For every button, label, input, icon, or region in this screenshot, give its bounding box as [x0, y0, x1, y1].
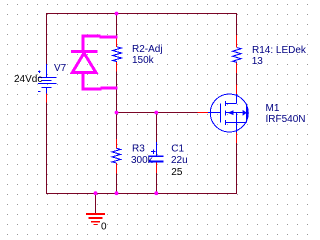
mosfet M1 body arrow [228, 110, 234, 115]
svg-text:24Vdc: 24Vdc [14, 74, 42, 85]
svg-text:M1: M1 [266, 103, 280, 114]
junction mid-left [115, 111, 119, 115]
svg-text:13: 13 [252, 56, 264, 67]
wire: right rail below M1 source [236, 143, 238, 194]
wire: right rail above R14 [236, 13, 238, 35]
svg-text:0: 0 [101, 222, 107, 233]
resistor R2 [113, 47, 122, 62]
diode cathode bar [71, 50, 97, 53]
diode triangle [72, 53, 95, 72]
junction ground [94, 191, 98, 195]
junction bottom-C1 [154, 191, 158, 195]
wire: ground stem [95, 193, 97, 213]
svg-text:R2-Adj: R2-Adj [132, 44, 163, 55]
wire: right rail R14 to M1 drain [236, 73, 238, 84]
wire: top rail [46, 13, 237, 15]
svg-text:IRF540N: IRF540N [266, 114, 306, 125]
svg-text:R3: R3 [132, 144, 145, 155]
capacitor C1 pin bottom [156, 162, 158, 173]
wire: gate rail red pin [198, 112, 209, 114]
junction bottom-R3 [115, 191, 119, 195]
wire: mid vertical R2 to mid rail to R3 [116, 72, 118, 140]
diode lead top [81, 35, 84, 51]
resistor R3 pins [116, 139, 118, 148]
wire: mid vertical above R2 [116, 13, 118, 36]
svg-text:V7: V7 [54, 63, 67, 74]
junction top [115, 12, 119, 16]
diode lead bottom [81, 73, 84, 90]
wire: C1 vertical lower [156, 173, 158, 194]
svg-text:R14: LEDek: R14: LEDek [252, 45, 307, 56]
resistor R14 pins [236, 35, 238, 47]
diode wire bottom [82, 88, 102, 91]
junction mid-C1 [154, 111, 158, 115]
wire: left rail upper [46, 13, 48, 67]
battery V7 [38, 64, 57, 94]
svg-text:25: 25 [171, 167, 183, 178]
svg-text:150k: 150k [132, 55, 155, 66]
mosfet M1 body diode triangle [243, 110, 247, 116]
wire: mid vertical below R3 [116, 173, 118, 194]
resistor R3 [112, 148, 121, 163]
mosfet M1 drain pin [236, 84, 238, 94]
capacitor C1 [149, 142, 163, 162]
wire: C1 vertical upper [156, 113, 158, 142]
wire: middle rail [117, 112, 198, 114]
svg-text:22u: 22u [171, 155, 188, 166]
svg-text:C1: C1 [171, 144, 184, 155]
mosfet M1 source pin [236, 133, 238, 144]
mosfet M1 [210, 94, 248, 132]
battery V7 pin bottom [46, 94, 48, 103]
diode (selected) wire top [71, 35, 118, 90]
wire: bottom rail [46, 193, 237, 195]
resistor R14 [233, 48, 241, 63]
ground bars [86, 214, 105, 225]
wire: left rail lower [46, 103, 48, 195]
resistor R2 pins [116, 38, 118, 48]
